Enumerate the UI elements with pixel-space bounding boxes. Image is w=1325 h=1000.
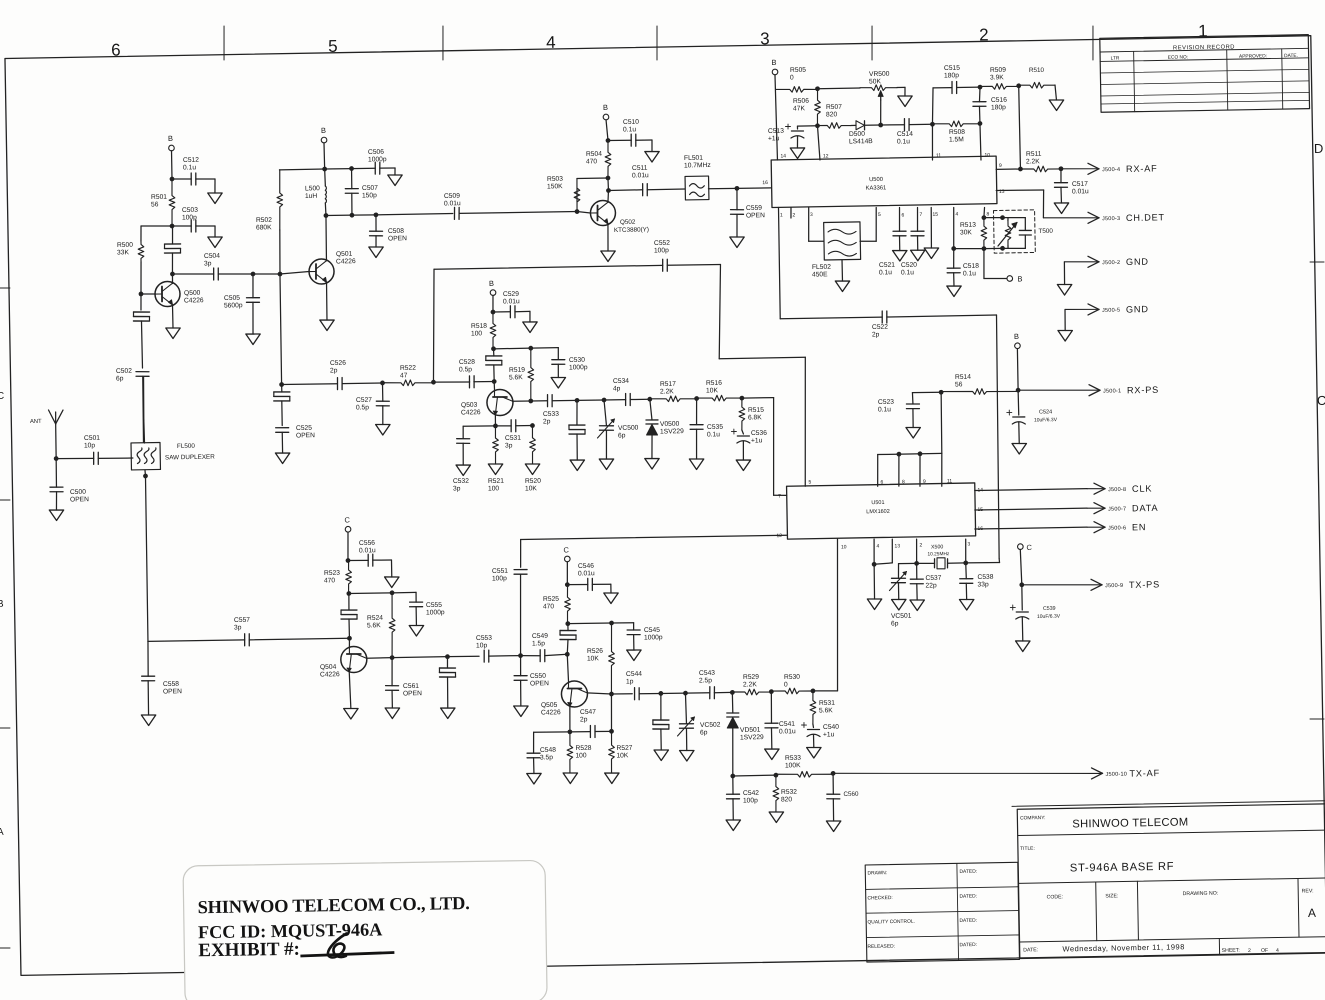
svg-text:6.8K: 6.8K xyxy=(748,414,762,421)
resistor R526 10K xyxy=(586,623,615,694)
wire (U500 pin4) xyxy=(953,207,954,248)
wire xyxy=(606,430,607,459)
junction xyxy=(872,562,877,567)
svg-text:FL502: FL502 xyxy=(812,264,831,271)
wire xyxy=(708,187,736,190)
svg-text:R525: R525 xyxy=(543,596,559,603)
svg-text:T500: T500 xyxy=(1038,228,1053,235)
svg-text:10p: 10p xyxy=(84,442,96,449)
wire xyxy=(851,124,856,126)
svg-text:5: 5 xyxy=(808,479,811,485)
junction xyxy=(1059,166,1064,171)
ground (ferrite Q505) xyxy=(654,750,669,761)
wire (U500 pin1 to C522) xyxy=(778,208,780,319)
wire xyxy=(145,476,148,641)
ground (VC501) xyxy=(892,599,907,610)
transistor Q501 C4226 xyxy=(309,251,357,285)
svg-text:9: 9 xyxy=(999,163,1002,169)
svg-text:12: 12 xyxy=(776,533,782,539)
power terminal B (Q502) xyxy=(603,103,609,120)
svg-text:0.01u: 0.01u xyxy=(1072,188,1089,195)
svg-text:33p: 33p xyxy=(977,581,989,588)
junction xyxy=(565,582,570,587)
wire (U500 pin13 to CH.DET) xyxy=(996,190,1043,191)
junction xyxy=(602,398,607,403)
capacitor C531 3p xyxy=(505,420,522,450)
wire xyxy=(218,273,253,274)
connector J500-1 RX-PS xyxy=(1018,389,1098,392)
svg-text:CHECKED:: CHECKED: xyxy=(867,895,892,901)
wire (U501 pin14 CLK) xyxy=(975,489,1087,491)
power terminal C (TX-PS) xyxy=(1017,543,1032,552)
ground (VR500) xyxy=(898,96,913,107)
wire xyxy=(348,559,368,562)
svg-text:VD501: VD501 xyxy=(740,727,761,734)
ground (C529) xyxy=(523,322,538,333)
svg-text:14: 14 xyxy=(780,153,786,159)
ferrite bead (Q504 out) xyxy=(439,667,455,670)
wire xyxy=(171,151,173,179)
svg-text:DATED:: DATED: xyxy=(959,893,977,899)
junction xyxy=(390,655,395,660)
wire (R509 node to R511) xyxy=(1019,86,1021,169)
wire xyxy=(577,211,590,213)
junction xyxy=(981,246,986,251)
wire xyxy=(381,383,383,401)
svg-text:16: 16 xyxy=(762,180,768,186)
svg-text:R530: R530 xyxy=(784,674,800,681)
svg-text:5600p: 5600p xyxy=(224,302,243,309)
svg-text:EXHIBIT #:: EXHIBIT #: xyxy=(198,939,300,962)
svg-text:2p: 2p xyxy=(330,367,338,374)
wire xyxy=(172,178,191,181)
resistor R530 0 xyxy=(771,673,813,694)
ferrite bead (Q503 base) xyxy=(486,355,502,358)
junction xyxy=(431,380,436,385)
svg-text:10K: 10K xyxy=(706,387,719,394)
wire (Q500/Q503 node to C552) xyxy=(434,265,663,269)
capacitor C547 2p xyxy=(580,709,597,738)
svg-text:RX-AF: RX-AF xyxy=(1126,163,1158,174)
svg-text:J500-10: J500-10 xyxy=(1105,772,1127,778)
svg-text:B: B xyxy=(603,103,608,112)
wire xyxy=(381,406,384,425)
wire xyxy=(394,168,396,175)
svg-text:C504: C504 xyxy=(204,253,220,260)
svg-text:C548: C548 xyxy=(540,747,556,754)
junction xyxy=(1016,83,1021,88)
wire (R513 to B term) xyxy=(983,249,984,279)
junction xyxy=(914,561,919,566)
ground (C505) xyxy=(246,334,261,345)
transistor Q500 C4226 xyxy=(155,281,204,307)
svg-text:C540: C540 xyxy=(823,724,839,731)
wire (U501 pin3) xyxy=(964,539,967,563)
wire xyxy=(375,215,377,231)
svg-text:VR500: VR500 xyxy=(869,71,890,78)
svg-text:680K: 680K xyxy=(256,224,272,231)
svg-text:0.1u: 0.1u xyxy=(707,431,720,438)
ground (C545) xyxy=(627,650,642,661)
wire xyxy=(323,143,326,169)
transistor Q503 C4226 xyxy=(461,389,514,416)
wire xyxy=(390,560,392,577)
wire xyxy=(881,124,905,127)
power terminal B (U500) xyxy=(771,58,777,75)
wire xyxy=(932,124,933,160)
svg-text:R515: R515 xyxy=(748,407,764,414)
wire xyxy=(513,400,531,402)
svg-text:C521: C521 xyxy=(879,262,895,269)
IC U500 KA3361 xyxy=(771,156,997,207)
wire xyxy=(252,274,255,298)
ground (R527) xyxy=(605,773,620,784)
capacitor C527 0.5p xyxy=(356,396,390,411)
ground (C524) xyxy=(1012,443,1027,454)
svg-text:180p: 180p xyxy=(991,104,1006,111)
connector J500-2 GND xyxy=(1064,261,1097,262)
capacitor C536 +1u xyxy=(731,428,767,444)
capacitor C550 OPEN xyxy=(514,673,549,688)
svg-text:DATED:: DATED: xyxy=(959,942,977,948)
wire xyxy=(650,399,652,420)
connector J500-8 CLK xyxy=(1087,487,1103,490)
svg-text:9: 9 xyxy=(923,479,926,485)
connector J500-5 GND xyxy=(1065,309,1097,310)
svg-text:C547: C547 xyxy=(580,709,596,716)
svg-text:R528: R528 xyxy=(575,745,591,752)
wire xyxy=(531,400,547,402)
svg-text:TX-AF: TX-AF xyxy=(1129,768,1160,779)
ground (R521) xyxy=(488,464,503,475)
wire xyxy=(651,435,654,459)
svg-text:C559: C559 xyxy=(746,205,762,212)
svg-text:R505: R505 xyxy=(790,67,806,74)
wire xyxy=(346,532,349,560)
junction xyxy=(878,123,883,128)
svg-text:6p: 6p xyxy=(891,620,899,627)
junction xyxy=(918,451,923,456)
junction xyxy=(324,213,329,218)
svg-text:Q503: Q503 xyxy=(461,402,478,409)
junction xyxy=(347,636,352,641)
capacitor C529 0.01u xyxy=(503,291,520,318)
wire (X500 node to C522 leg) xyxy=(966,561,1000,564)
wire (R518 to C530 rail) xyxy=(494,347,531,350)
svg-text:J500-3: J500-3 xyxy=(1102,216,1120,222)
resistor R518 100 xyxy=(471,312,497,349)
ground (Q502 emitter) xyxy=(601,251,616,262)
capacitor C528 0.5p xyxy=(459,359,476,388)
svg-text:C558: C558 xyxy=(163,681,179,688)
connector J500-3 CH.DET xyxy=(1043,217,1097,219)
svg-text:OPEN: OPEN xyxy=(70,496,89,503)
svg-text:OPEN: OPEN xyxy=(388,235,407,242)
svg-text:C: C xyxy=(563,545,569,554)
wire xyxy=(592,583,610,585)
junction xyxy=(279,382,284,387)
wire xyxy=(742,430,744,434)
wire xyxy=(714,691,732,693)
ferrite bead (C525 leg) xyxy=(274,391,290,394)
wire xyxy=(516,424,533,426)
wire xyxy=(685,692,709,695)
junction xyxy=(981,215,986,220)
ground (VC502) xyxy=(680,750,695,761)
capacitor C559 OPEN xyxy=(730,205,765,220)
wire xyxy=(736,214,739,237)
wire xyxy=(1055,85,1056,100)
wire (U501 pin13) xyxy=(891,539,894,563)
wire xyxy=(817,126,819,160)
capacitor C502 6p xyxy=(116,367,149,382)
wire xyxy=(737,187,771,190)
svg-text:3p: 3p xyxy=(234,624,242,631)
resistor R525 470 xyxy=(543,585,571,624)
svg-text:TITLE:: TITLE: xyxy=(1020,846,1035,852)
connector J500-9 TX-PS xyxy=(1022,583,1100,586)
svg-text:0.5p: 0.5p xyxy=(356,404,369,411)
wire xyxy=(55,492,58,510)
svg-text:150K: 150K xyxy=(547,183,563,190)
wire xyxy=(610,584,612,593)
svg-text:VC501: VC501 xyxy=(891,613,912,620)
svg-text:X500: X500 xyxy=(931,544,944,550)
junction xyxy=(251,272,256,277)
svg-text:8: 8 xyxy=(986,211,989,217)
transistor Q505 C4226 xyxy=(540,681,587,717)
svg-text:VC502: VC502 xyxy=(700,722,721,729)
capacitor C561 OPEN xyxy=(385,683,422,698)
junction xyxy=(445,654,450,659)
ground (C530) xyxy=(551,377,566,388)
wire xyxy=(651,140,653,152)
wire xyxy=(253,273,280,276)
ground (C532) xyxy=(456,465,471,476)
wire (U500 pin9 out) xyxy=(996,168,1020,170)
junction xyxy=(170,177,175,182)
wire xyxy=(515,310,530,312)
junction xyxy=(491,310,496,315)
svg-text:B: B xyxy=(1014,332,1019,341)
junction xyxy=(528,399,533,404)
svg-text:C537: C537 xyxy=(925,575,941,582)
svg-text:47K: 47K xyxy=(793,105,806,112)
junction xyxy=(694,396,699,401)
ground (C559) xyxy=(730,237,745,248)
wire (Q505 emitter) xyxy=(568,706,571,732)
svg-text:7: 7 xyxy=(778,494,781,500)
svg-text:0.1u: 0.1u xyxy=(623,126,636,133)
svg-text:OPEN: OPEN xyxy=(163,688,182,695)
svg-text:B: B xyxy=(1017,274,1022,283)
resistor R521 100 xyxy=(487,426,505,493)
capacitor C510 0.1u xyxy=(623,119,640,147)
junction xyxy=(567,729,572,734)
ferrite bead (Q505 out) xyxy=(653,719,669,722)
wire (U500 pin2 stub) xyxy=(790,208,792,219)
resistor R516 10K xyxy=(696,379,742,401)
svg-text:C560: C560 xyxy=(843,791,859,798)
wire xyxy=(141,293,155,296)
capacitor C500 OPEN xyxy=(50,487,89,504)
wire (pin4-R513 row) xyxy=(954,248,984,249)
capacitor C534 4p xyxy=(613,378,631,406)
svg-text:C: C xyxy=(344,515,350,524)
junction xyxy=(350,213,355,218)
svg-text:10.7MHz: 10.7MHz xyxy=(684,162,712,169)
capacitor C555 1000p xyxy=(410,602,445,617)
junction xyxy=(896,452,901,457)
svg-text:C527: C527 xyxy=(356,397,372,404)
svg-text:C544: C544 xyxy=(626,671,642,678)
wire xyxy=(696,429,697,459)
svg-text:C510: C510 xyxy=(623,119,639,126)
capacitor C509 0.01u xyxy=(444,193,461,220)
resistor R511 2.2K xyxy=(1020,150,1061,172)
wire xyxy=(577,177,608,180)
capacitor C506 1000p xyxy=(368,149,387,175)
wire xyxy=(978,106,981,123)
svg-text:2: 2 xyxy=(919,542,922,548)
ground (C541) xyxy=(765,749,780,760)
junction xyxy=(143,474,148,479)
svg-text:R514: R514 xyxy=(955,374,971,381)
wire xyxy=(279,230,280,274)
wire xyxy=(141,225,172,226)
svg-text:C532: C532 xyxy=(453,478,469,485)
svg-text:1uH: 1uH xyxy=(305,193,318,200)
svg-text:10.25MHz: 10.25MHz xyxy=(927,551,950,557)
wire xyxy=(252,302,253,334)
svg-text:C513: C513 xyxy=(768,128,784,135)
capacitor C525 OPEN xyxy=(276,425,316,440)
svg-text:470: 470 xyxy=(543,603,555,610)
wire xyxy=(142,376,144,442)
capacitor C521 0.1u xyxy=(878,231,907,276)
svg-text:C545: C545 xyxy=(644,627,660,634)
svg-text:100: 100 xyxy=(575,752,587,759)
svg-text:C4226: C4226 xyxy=(461,409,481,416)
svg-text:C555: C555 xyxy=(426,602,442,609)
U501 pin numbers xyxy=(775,476,984,551)
svg-text:R518: R518 xyxy=(471,323,487,330)
svg-text:5.6K: 5.6K xyxy=(819,707,833,714)
wire xyxy=(604,399,626,401)
svg-text:SIZE:: SIZE: xyxy=(1105,893,1118,899)
junction xyxy=(815,123,820,128)
svg-text:R513: R513 xyxy=(960,222,976,229)
wire (U501 pin12 to C551) xyxy=(521,535,787,540)
svg-text:R507: R507 xyxy=(826,104,842,111)
potentiometer VR500 50K xyxy=(817,71,897,102)
svg-text:R523: R523 xyxy=(324,570,340,577)
ferrite bead (antenna leg) xyxy=(134,311,150,314)
junction xyxy=(170,272,175,277)
resistor R509 3.9K xyxy=(980,67,1019,90)
ground (C508) xyxy=(369,247,384,258)
antenna ANT xyxy=(30,410,63,425)
left edge tick marks xyxy=(0,288,21,949)
power terminal B (discriminator) xyxy=(1007,274,1023,283)
svg-text:C551: C551 xyxy=(492,568,508,575)
svg-text:DATA: DATA xyxy=(1132,503,1159,513)
capacitor C544 1p xyxy=(626,671,643,700)
junction xyxy=(346,558,351,563)
svg-text:R533: R533 xyxy=(785,755,801,762)
right edge zone letters xyxy=(1312,141,1325,408)
svg-text:R526: R526 xyxy=(587,648,603,655)
resistor R527 10K xyxy=(608,731,633,773)
svg-text:C531: C531 xyxy=(505,435,521,442)
svg-text:KA3361: KA3361 xyxy=(866,185,887,191)
capacitor C516 180p xyxy=(973,97,1008,112)
wire (C515 branch) xyxy=(932,88,934,124)
wire xyxy=(171,274,173,284)
svg-text:DRAWING NO:: DRAWING NO: xyxy=(1183,891,1219,898)
svg-text:10uF/6.3V: 10uF/6.3V xyxy=(1037,614,1061,620)
ground (VC500) xyxy=(599,459,614,470)
svg-text:1: 1 xyxy=(1198,22,1208,41)
ferrite bead (Q500 collector) xyxy=(165,243,181,245)
junction xyxy=(815,86,820,91)
wire xyxy=(380,167,395,169)
capacitor C526 2p xyxy=(330,360,347,390)
wire xyxy=(141,321,142,368)
capacitor C524 10uF/6.3V xyxy=(1007,409,1058,424)
svg-text:C552: C552 xyxy=(654,240,670,247)
svg-text:C561: C561 xyxy=(403,683,419,690)
ground (C518) xyxy=(947,286,962,297)
power terminal B (Q500 bias) xyxy=(168,134,174,151)
svg-text:A: A xyxy=(0,827,4,838)
capacitor C515 180p xyxy=(944,65,961,94)
ground (C517) xyxy=(1054,203,1069,214)
junction xyxy=(730,774,735,779)
svg-text:OF: OF xyxy=(1261,948,1268,954)
svg-text:RX-PS: RX-PS xyxy=(1127,385,1159,396)
junction xyxy=(278,272,283,277)
resistor R524 5.6K xyxy=(366,593,395,658)
junction xyxy=(349,166,354,171)
svg-text:REVISION RECORD: REVISION RECORD xyxy=(1173,44,1235,51)
svg-text:LS414B: LS414B xyxy=(849,138,873,145)
svg-text:C: C xyxy=(1317,393,1325,408)
capacitor C553 10p xyxy=(476,635,493,663)
wire xyxy=(567,654,568,682)
junction xyxy=(322,167,327,172)
junction xyxy=(565,621,570,626)
svg-text:C520: C520 xyxy=(901,262,917,269)
svg-text:C542: C542 xyxy=(743,790,759,797)
svg-text:SAW DUPLEXER: SAW DUPLEXER xyxy=(165,454,215,462)
svg-text:R529: R529 xyxy=(743,674,759,681)
top ruler tick marks xyxy=(223,11,1093,75)
svg-text:OPEN: OPEN xyxy=(530,680,549,687)
svg-text:2p: 2p xyxy=(580,716,588,723)
wire (C523 stub) xyxy=(912,391,941,394)
wire xyxy=(433,382,469,383)
svg-text:3p: 3p xyxy=(505,442,513,449)
svg-text:5: 5 xyxy=(878,212,881,218)
wire xyxy=(493,382,495,391)
wire xyxy=(909,123,932,125)
svg-text:6p: 6p xyxy=(618,432,626,439)
svg-text:4: 4 xyxy=(955,211,958,217)
junction xyxy=(606,176,611,181)
wire xyxy=(493,311,510,313)
svg-text:J500-1: J500-1 xyxy=(1103,388,1121,394)
